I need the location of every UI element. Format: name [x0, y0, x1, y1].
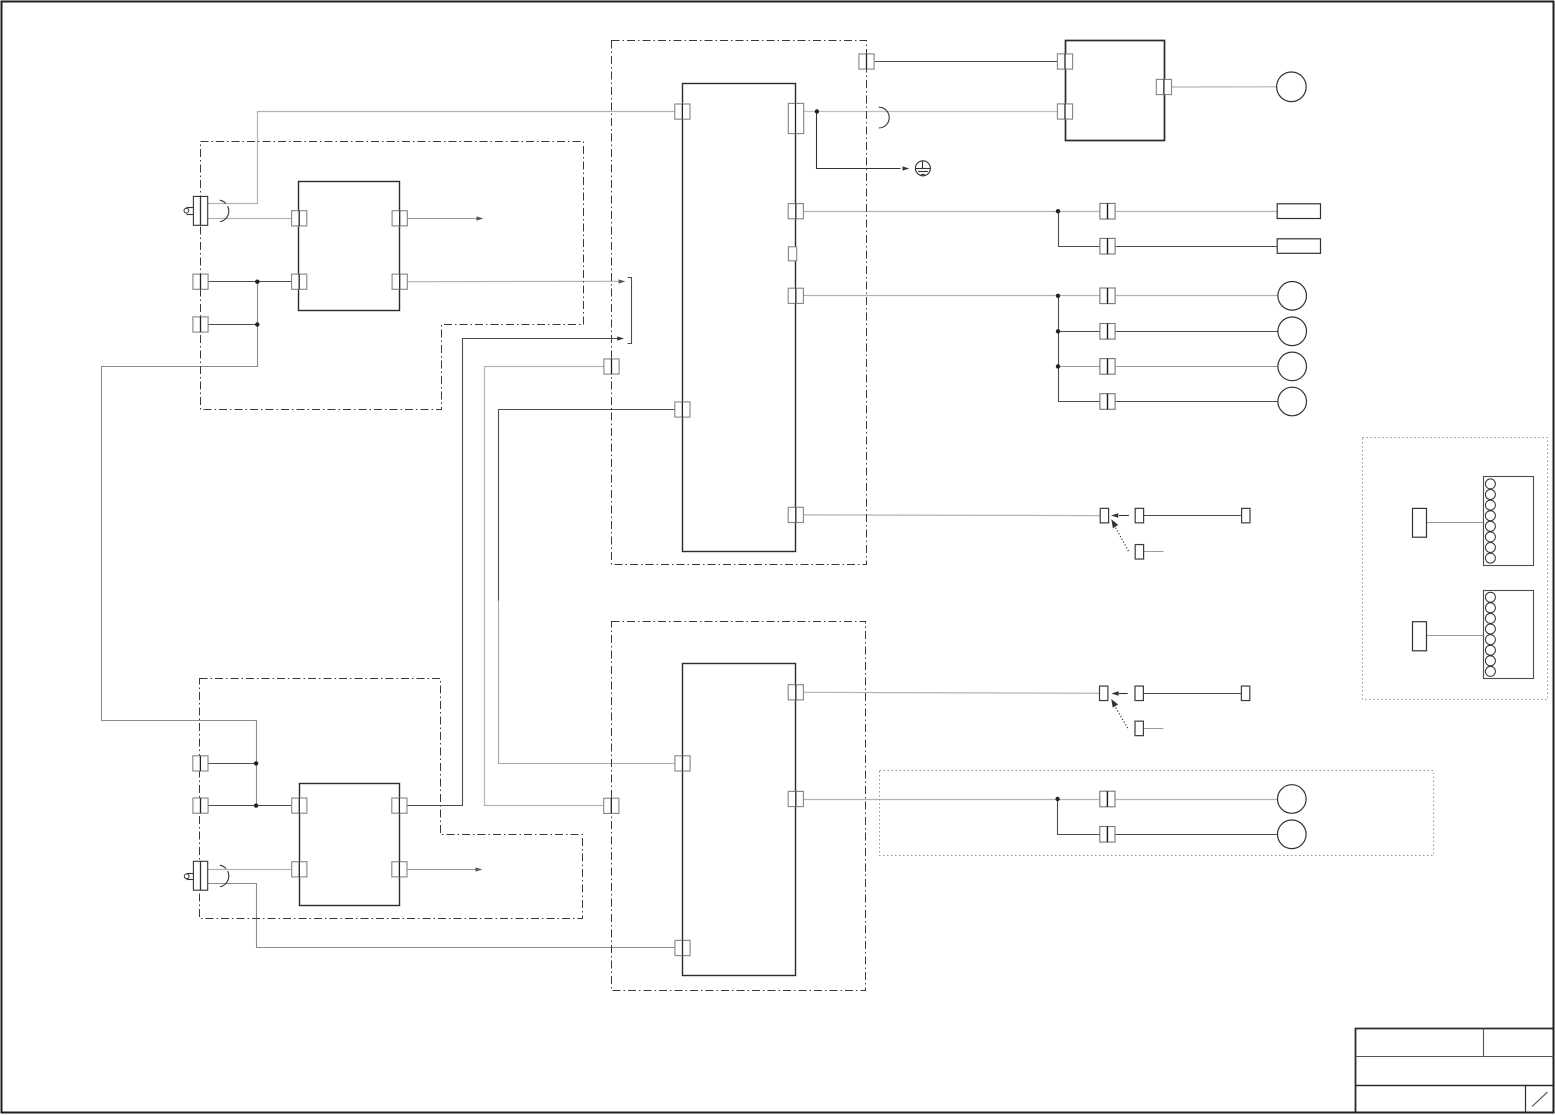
wire: connector X4 pair link — [1143, 693, 1241, 695]
BOXES — [200, 41, 1548, 991]
pin: K1 right — [1156, 79, 1171, 94]
wire: branch down to fuse row A2 — [1059, 212, 1100, 247]
wire: terminal X1 to B1 lower input — [209, 281, 292, 283]
wire: glow plug E2 return down to A2 lower-left pin — [208, 884, 675, 948]
wire: terminal X8 to B5 upper input — [209, 805, 293, 807]
wire: relay K1 output to motor M1 — [1171, 86, 1276, 88]
fuse F1 — [1100, 203, 1115, 219]
wire: A2 pin to fuse row C1 — [804, 799, 1100, 801]
connector X4 pin b — [1135, 686, 1143, 701]
ground symbol (protective earth) — [915, 161, 931, 176]
fuse F4 — [1100, 324, 1115, 340]
pin: A2 left bottom — [675, 940, 690, 955]
terminal X1 on harness edge — [193, 274, 208, 289]
wire: link terminal on A1 harness edge to terminal on A2 harness edge — [485, 367, 604, 806]
pin: K1 left top — [1057, 54, 1072, 69]
wire: B1 output to bracket arrow 1 — [407, 280, 621, 282]
pin: A1 right top (double) — [788, 103, 803, 133]
terminal X8 on harness edge — [193, 798, 208, 813]
terminal on A1 harness edge (left) — [604, 359, 619, 374]
pin: B1 right top — [392, 211, 407, 226]
wire: connector X5 link — [1427, 522, 1484, 524]
wire: A1 pin to fuse row A1 — [804, 211, 1100, 213]
bracket joining arrows — [628, 278, 632, 344]
wire: connector X6 link — [1427, 635, 1484, 637]
connector X3 pin c — [1242, 508, 1250, 523]
wire: A1 top-right pin to relay box K1 lower pin — [804, 111, 1059, 113]
connector X4 spare pin stub — [1143, 728, 1163, 730]
connector X4 mating arrow — [1119, 693, 1128, 695]
connector X3 pin a — [1100, 508, 1108, 523]
wire: sensor box B5 output arrow — [407, 869, 478, 871]
connector X3 mating arrow — [1119, 515, 1129, 517]
motor M1 — [1277, 72, 1307, 102]
fuse F8 — [1100, 827, 1115, 843]
pin: A1 right 3 — [788, 288, 803, 303]
pin: A1 right 2 — [788, 204, 803, 219]
pin: K1 left bottom — [1057, 104, 1072, 119]
pin: A2 left top — [675, 756, 690, 771]
pin: A2 right top — [788, 685, 803, 700]
wire: vertical branch for fuse rows B2-B4 — [1059, 296, 1100, 402]
pin: A1 right spare (half) — [788, 247, 796, 261]
node: fuse row B3 junction — [1056, 364, 1060, 368]
wire: harness terminal to relay box K1 — [875, 61, 1059, 63]
node: ground branch junction — [815, 109, 819, 113]
wire: A1 lower-left pin down to A2 upper-left pin — [499, 410, 675, 601]
pin: A1 left bottom — [675, 402, 690, 417]
wire: A1 pin to connector X3 — [804, 514, 1100, 517]
dotted option frame (right connector group) — [1363, 438, 1548, 700]
wire: A2 pin to connector X4 — [804, 692, 1100, 693]
node: lower-left junction a — [254, 761, 258, 765]
connector X6 (plug to pin-row header) — [1413, 591, 1534, 679]
lamp H1 — [1278, 282, 1307, 311]
wire: branch down to fuse row C2 — [1058, 800, 1100, 835]
wire: branch to fuse B3 — [1058, 366, 1100, 368]
dotted option frame (lamp group H5/H6) — [880, 771, 1434, 856]
relay box K1 — [1066, 41, 1165, 141]
node: fuse row C junction — [1055, 797, 1059, 801]
harness enclosure (dash-dot) around top-left group — [201, 142, 584, 410]
connector X5 (plug to pin-row header) — [1413, 477, 1534, 566]
harness enclosure (dash-dot) around bottom-left group — [200, 679, 583, 919]
pin: A2 right mid — [788, 791, 803, 806]
control unit A2 — [683, 664, 796, 976]
fuse F5 — [1100, 359, 1115, 375]
lamp H3 — [1278, 352, 1307, 381]
pin: B5 left top — [292, 798, 307, 813]
terminal on A2 harness edge (left) — [604, 798, 619, 813]
control unit A1 — [683, 84, 796, 552]
wire: terminal X7 to node — [209, 763, 257, 765]
lamp H2 — [1278, 317, 1307, 346]
node: B1 input junction — [255, 280, 259, 284]
node: fuse row B2 junction — [1056, 329, 1060, 333]
wire: fuse A2 to heater element R2 — [1116, 246, 1278, 248]
wire: fuse A1 to heater element R1 — [1116, 211, 1278, 213]
wire: A1 pin to fuse row B1 — [804, 295, 1100, 297]
heater element R2 — [1277, 239, 1320, 254]
wire: fuse B3 to lamp H3 — [1116, 366, 1278, 368]
wire: fuse C1 to lamp H5 — [1115, 799, 1277, 801]
connector X3 pin b — [1135, 508, 1143, 523]
wire: glow plug E1 to sensor box B1 input — [208, 218, 292, 220]
wire: branch to fuse B2 — [1058, 331, 1100, 333]
wire: node chain down to lower-left block — [102, 282, 258, 806]
glow plug E2 — [184, 861, 229, 890]
node: lower-left junction b — [254, 803, 258, 807]
fuse F7 — [1100, 791, 1115, 807]
connector X3 spare pin stub — [1143, 551, 1163, 553]
crossing hop arc on wire — [879, 107, 889, 128]
pin: A1 right 4 — [788, 507, 803, 522]
terminal X2 on harness edge — [193, 317, 208, 332]
wire: glow plug E2 to sensor box B5 input — [208, 869, 293, 871]
harness enclosure (dash-dot) around control unit A1 — [612, 41, 867, 565]
pin: A1 left top — [675, 104, 690, 119]
connector X6 pin circles — [1485, 592, 1495, 676]
wire: ground branch with arrow — [817, 112, 901, 169]
pin: B5 left bottom — [292, 862, 307, 877]
fuse F2 — [1100, 238, 1115, 254]
wire: sensor box B1 output arrow (top) — [407, 218, 479, 220]
connector X4 spare pin — [1135, 721, 1143, 736]
sensor box B1 — [299, 182, 400, 311]
connector X5 pin circles — [1485, 479, 1495, 563]
pin: B1 left top — [292, 211, 307, 226]
wire: fuse C2 to lamp H6 — [1115, 834, 1277, 836]
connector X3 spare pin — [1135, 545, 1143, 560]
pin: B5 right bottom — [392, 862, 407, 877]
heater element R1 — [1277, 204, 1320, 219]
lamp H4 — [1278, 387, 1307, 416]
glow plug E1 — [184, 196, 229, 225]
title block — [1356, 1029, 1554, 1113]
connector X4 pin c — [1241, 686, 1249, 701]
node: X2 junction — [255, 322, 259, 326]
lamp H6 — [1278, 820, 1307, 849]
junction nodes — [254, 109, 1060, 808]
wire: fuse B4 to lamp H4 — [1116, 401, 1278, 403]
connector X4 pin a — [1100, 686, 1108, 701]
wire: terminal X2 to node — [209, 324, 258, 326]
terminal X7 on harness edge — [193, 756, 208, 771]
node: fuse row B1 junction — [1056, 294, 1060, 298]
pin: B5 right top — [392, 798, 407, 813]
wire: connector X3 pair link — [1143, 515, 1241, 517]
wire: glow plug E1 to control unit A1 pin (top feed) — [208, 112, 676, 204]
fuse F6 — [1100, 394, 1115, 410]
node: fuse row A junction — [1056, 209, 1060, 213]
harness enclosure (dash-dot) around control unit A2 — [612, 622, 866, 991]
terminal on A1 harness edge (top right) — [859, 54, 874, 69]
pin: B1 right bottom — [392, 274, 407, 289]
fuse F3 — [1100, 288, 1115, 304]
lamp H5 — [1278, 785, 1307, 814]
connector X4 pointer arrow (diagonal) — [1115, 707, 1128, 729]
pin: B1 left bottom — [292, 274, 307, 289]
wire: fuse B2 to lamp H2 — [1116, 331, 1278, 333]
connector X3 pointer arrow (diagonal) — [1115, 527, 1128, 551]
sensor box B5 — [300, 784, 400, 906]
wire: B5 output up to bracket arrow 2 — [408, 339, 620, 806]
wire: fuse B1 to lamp H1 — [1116, 295, 1278, 297]
